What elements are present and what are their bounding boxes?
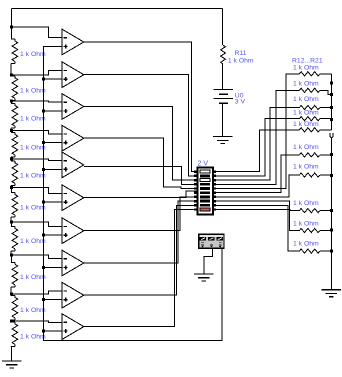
wire op-amp U3 output to display pin <box>84 107 197 181</box>
bar display segment 10 <box>200 208 210 211</box>
wire right rail lower segment <box>331 138 333 290</box>
bar display segment 4 <box>200 183 210 186</box>
svg-text:1 k Ohm: 1 k Ohm <box>293 81 319 88</box>
label U0 <box>235 92 244 99</box>
bar display pin nub right 6 <box>214 192 216 194</box>
label R17 value <box>293 144 319 151</box>
node ladder tap 1 junction <box>10 26 13 29</box>
op-amp U1 comparator <box>62 29 84 54</box>
op-amp U6 comparator <box>62 185 84 210</box>
label R11 <box>235 50 247 57</box>
ground battery <box>213 137 232 144</box>
label bar display reading <box>198 160 209 168</box>
svg-text:1 k Ohm: 1 k Ohm <box>20 144 46 151</box>
wire display pin 7 to resistor R18 <box>216 175 299 197</box>
wire display pin 4 to resistor R13 <box>216 90 299 184</box>
label R11 value <box>228 57 254 64</box>
bar display pin nub right 1 <box>214 171 216 173</box>
op-amp U5 comparator <box>62 152 84 177</box>
wire top rail from ladder to battery branch <box>12 8 223 10</box>
node rail junction at U8+ <box>42 266 45 269</box>
resistor R21 1 kOhm (output) <box>299 249 331 253</box>
wire op-amp U9 non-inverting input from rail <box>44 299 63 301</box>
svg-text:1 k Ohm: 1 k Ohm <box>293 121 319 128</box>
op-amp U2 comparator <box>62 62 84 87</box>
node right rail junction R17 <box>330 153 333 156</box>
node rail junction at U4+ <box>42 141 45 144</box>
label R8 value <box>20 274 46 281</box>
wire tap 5 to op-amp U5 inverting input <box>12 159 63 161</box>
label R7 value <box>20 238 46 245</box>
node ladder tap 9 junction <box>10 293 13 296</box>
label R12 value <box>293 65 319 72</box>
bar display segment 6 <box>200 191 210 194</box>
bar display pin nub left 3 <box>194 179 196 181</box>
bar display pin nub left 10 <box>194 208 196 210</box>
resistor R18 1 kOhm (output) <box>299 173 331 177</box>
wire battery branch top <box>222 9 224 46</box>
svg-text:1 k Ohm: 1 k Ohm <box>293 200 319 207</box>
label R10 value <box>20 334 46 341</box>
wire display pin 5 to resistor R12 <box>216 74 299 189</box>
resistor R17 1 kOhm (output) <box>299 153 331 157</box>
svg-text:1 k Ohm: 1 k Ohm <box>20 115 46 122</box>
label R18 value <box>293 164 319 171</box>
wire ladder vertical bus <box>11 9 13 28</box>
resistor R7 1 kOhm (ladder) <box>11 222 18 255</box>
wire display pin 10 to resistor R19 <box>216 210 299 211</box>
bar display segment 7 <box>200 196 210 199</box>
wire tap 7 to op-amp U7 inverting input <box>12 222 63 226</box>
ground right rail <box>322 290 341 297</box>
wire tap 1 to op-amp U1 inverting input <box>12 27 63 38</box>
wire display pin 6 to resistor R17 <box>216 155 299 193</box>
bar display segment 3 <box>200 179 210 182</box>
node rail junction at U7+ <box>42 234 45 237</box>
wire tap 2 to op-amp U2 inverting input <box>12 70 63 75</box>
wire op-amp U8 non-inverting input from rail <box>44 266 63 268</box>
svg-text:3 V: 3 V <box>235 99 246 106</box>
wire op-amp U7 non-inverting input from rail <box>44 234 63 236</box>
node ladder tap 2 junction <box>10 74 13 77</box>
wire op-amp U7 output to display pin <box>84 197 197 231</box>
node right rail junction R13 <box>330 93 333 96</box>
bar display pin nub right 2 <box>214 175 216 177</box>
bar display segment 5 <box>200 187 210 190</box>
bar display pin nub right 10 <box>214 208 216 210</box>
wire tap 6 to op-amp U6 inverting input <box>12 187 63 193</box>
label R6 value <box>20 204 46 211</box>
ground input device <box>194 274 213 281</box>
label R14 value <box>293 96 319 103</box>
node ladder tap 4 junction <box>10 129 13 132</box>
resistor R11 1 kOhm <box>221 45 226 89</box>
connector U break in right rail <box>330 133 333 137</box>
wire input device to ground <box>204 249 213 274</box>
svg-text:1 k Ohm: 1 k Ohm <box>293 164 319 171</box>
wire op-amp U8 output to display pin <box>84 201 197 263</box>
bar display pin nub left 9 <box>194 204 196 206</box>
wire tap 8 to op-amp U8 inverting input <box>12 255 63 259</box>
op-amp U7 comparator <box>62 218 84 243</box>
label R4 value <box>20 144 46 151</box>
node right rail junction upper <box>330 81 333 84</box>
wire op-amp U9 output to display pin <box>84 205 197 295</box>
svg-text:R12...R21: R12...R21 <box>292 58 323 65</box>
wire op-amp U4 output to display pin <box>84 138 197 188</box>
label R20 value <box>293 220 319 227</box>
bar display pin nub left 8 <box>194 200 196 202</box>
node ladder tap 6 junction <box>10 186 13 189</box>
wire op-amp U10 output to display pin <box>84 210 197 327</box>
resistor R12 1 kOhm (output) <box>299 72 331 76</box>
svg-text:1 k Ohm: 1 k Ohm <box>228 57 254 64</box>
ground ladder bottom <box>2 347 21 368</box>
bar display pin nub left 2 <box>194 175 196 177</box>
resistor R3 1 kOhm (ladder) <box>11 101 18 131</box>
op-amp U9 comparator <box>62 283 84 308</box>
svg-text:1 k Ohm: 1 k Ohm <box>293 144 319 151</box>
resistor R16 1 kOhm (output) <box>299 128 331 132</box>
resistor R9 1 kOhm (ladder) <box>11 294 18 321</box>
bar display body (2 V meter) <box>197 168 213 215</box>
bar display pin nub right 7 <box>214 196 216 198</box>
bar display pin nub right 8 <box>214 200 216 202</box>
node right rail junction R15 <box>330 118 333 121</box>
svg-text:R11: R11 <box>235 50 247 57</box>
node right rail junction R20 <box>330 229 333 232</box>
svg-text:1 k Ohm: 1 k Ohm <box>20 238 46 245</box>
resistor R20 1 kOhm (output) <box>299 228 331 232</box>
label R3 value <box>20 115 46 122</box>
bar display segment 8 <box>200 200 210 203</box>
wire op-amp U4 non-inverting input from rail <box>44 142 63 144</box>
bar display pin nub left 5 <box>194 187 196 189</box>
node ladder tap 7 junction <box>10 221 13 224</box>
node rail junction at U10+ <box>42 330 45 333</box>
wire display pin 8 to resistor R20 <box>216 201 299 230</box>
bar display pin nub left 6 <box>194 192 196 194</box>
resistor R14 1 kOhm (output) <box>299 105 331 109</box>
bar display pin nub left 7 <box>194 196 196 198</box>
bar display pin nub right 5 <box>214 187 216 189</box>
label R13 value <box>293 81 319 88</box>
svg-text:1 k Ohm: 1 k Ohm <box>20 88 46 95</box>
label R2 value <box>20 88 46 95</box>
svg-text:1 k Ohm: 1 k Ohm <box>20 51 46 58</box>
wire display pin 2 to resistor R15 <box>216 119 299 176</box>
wire right rail upper segment <box>331 74 333 130</box>
label R9 value <box>20 307 46 314</box>
wire op-amp U5 non-inverting input from rail <box>44 168 63 170</box>
node rail junction at U6+ <box>42 201 45 204</box>
label R19 value <box>293 200 319 207</box>
op-amp U10 comparator <box>62 314 84 339</box>
bar display pin nub left 1 <box>194 171 196 173</box>
bar display pin nub right 4 <box>214 183 216 185</box>
label U0 voltage <box>235 99 246 106</box>
svg-text:1 k Ohm: 1 k Ohm <box>293 241 319 248</box>
node ladder tap 5 junction <box>10 157 13 160</box>
svg-text:1 k Ohm: 1 k Ohm <box>20 307 46 314</box>
bar display segment 9 <box>200 204 210 207</box>
bar display pin nub left 4 <box>194 183 196 185</box>
label R12...R21 group <box>292 58 323 65</box>
wire op-amp U10 non-inverting input from rail <box>44 330 63 332</box>
wire tap 4 to op-amp U4 inverting input <box>12 131 63 134</box>
wire common input rail to non-inverting inputs <box>44 46 222 340</box>
op-amp U4 comparator <box>62 126 84 151</box>
resistor R1 1 kOhm (ladder) <box>11 27 18 75</box>
node ladder tap 10 junction <box>10 320 13 323</box>
wire display pin 9 to resistor R21 <box>216 205 299 251</box>
label R15 value <box>293 109 319 116</box>
resistor R4 1 kOhm (ladder) <box>11 131 18 159</box>
wire display pin 3 to resistor R14 <box>216 108 299 181</box>
wire op-amp U2 non-inverting input from rail <box>44 78 63 80</box>
svg-text:1 k Ohm: 1 k Ohm <box>293 109 319 116</box>
wire tap 10 to op-amp U10 inverting input <box>12 321 63 322</box>
resistor R19 1 kOhm (output) <box>299 209 331 213</box>
node rail junction at U9+ <box>42 298 45 301</box>
wire op-amp U3 non-inverting input from rail <box>44 110 63 112</box>
node ladder tap 3 junction <box>10 99 13 102</box>
node right rail junction R18 <box>330 174 333 177</box>
svg-text:1 k Ohm: 1 k Ohm <box>20 334 46 341</box>
svg-text:1 k Ohm: 1 k Ohm <box>293 65 319 72</box>
bar display pin nub right 9 <box>214 204 216 206</box>
svg-text:1 k Ohm: 1 k Ohm <box>293 96 319 103</box>
node ladder tap 8 junction <box>10 254 13 257</box>
label R21 value <box>293 241 319 248</box>
resistor R2 1 kOhm (ladder) <box>11 75 18 101</box>
label R5 value <box>20 173 46 180</box>
svg-text:1 k Ohm: 1 k Ohm <box>20 204 46 211</box>
wire display pin 1 to resistor R16 <box>216 130 299 172</box>
node right rail junction R19 <box>330 209 333 212</box>
resistor R15 1 kOhm (output) <box>299 117 331 121</box>
input device (3-channel driver) <box>199 234 224 248</box>
svg-text:1 k Ohm: 1 k Ohm <box>20 274 46 281</box>
wire tap 9 to op-amp U9 inverting input <box>12 291 63 294</box>
battery U0 3 V <box>214 89 234 103</box>
resistor R8 1 kOhm (ladder) <box>11 255 18 294</box>
label R16 value <box>293 121 319 128</box>
bar display segment 2 <box>200 175 210 178</box>
wire op-amp U5 output to display pin <box>84 167 197 185</box>
node right rail junction R14 <box>330 106 333 109</box>
node rail junction at U2+ <box>42 78 45 81</box>
wire battery to ground <box>222 103 224 136</box>
svg-text:1 k Ohm: 1 k Ohm <box>20 173 46 180</box>
resistor R13 1 kOhm (output) <box>299 88 331 94</box>
svg-text:2 V: 2 V <box>198 160 209 168</box>
wire op-amp U6 output to display pin <box>84 191 197 198</box>
bar display pin nub right 3 <box>214 179 216 181</box>
op-amp U3 comparator <box>62 94 84 119</box>
resistor R6 1 kOhm (ladder) <box>11 187 18 222</box>
wire op-amp U2 output to display pin <box>84 75 197 176</box>
wire op-amp U6 non-inverting input from rail <box>44 201 63 203</box>
svg-text:1 k Ohm: 1 k Ohm <box>293 220 319 227</box>
resistor R5 1 kOhm (ladder) <box>11 159 18 188</box>
node rail junction at U5+ <box>42 168 45 171</box>
bar display segment 1 <box>200 170 210 173</box>
wire tap 3 to op-amp U3 inverting input <box>12 101 63 102</box>
node rail junction at U3+ <box>42 109 45 112</box>
label R1 value <box>20 51 46 58</box>
op-amp U8 comparator <box>62 250 84 275</box>
resistor R10 1 kOhm (ladder) <box>11 321 18 347</box>
wire op-amp U1 output to display pin <box>84 42 197 172</box>
node right rail junction R21 <box>330 250 333 253</box>
